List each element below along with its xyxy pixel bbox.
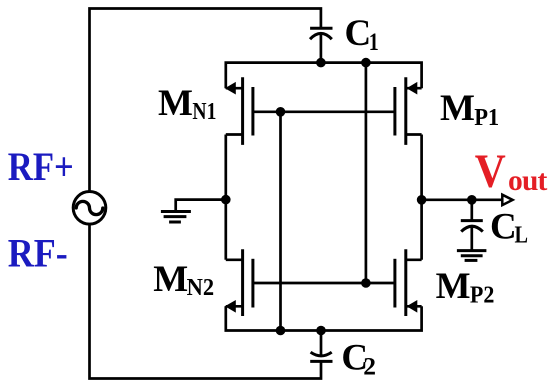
node: cross-couple right to bottom gate line <box>361 278 371 288</box>
svg-text:RF+: RF+ <box>8 144 74 189</box>
wire: cross-couple right vertical <box>365 63 368 283</box>
node: Vout tap on right stack <box>417 195 427 205</box>
capacitor CL curved plate <box>461 226 483 231</box>
capacitor C1 flat plate <box>310 27 332 30</box>
node: cross-couple left to bottom rail <box>276 326 286 336</box>
wire: bottom rail to C2 curved plate <box>320 331 323 356</box>
wire: C2 flat plate to source bottom (bottom horizontal + left vertical) <box>90 224 322 378</box>
svg-text:RF-: RF- <box>8 230 68 275</box>
svg-text:N2: N2 <box>187 274 215 301</box>
transistor MP2 <box>395 249 422 316</box>
svg-text:out: out <box>508 165 548 197</box>
capacitor C1 curved plate <box>310 33 332 39</box>
wire: C1 curved plate to top rail <box>320 34 323 63</box>
wire: top gate line <box>253 110 395 113</box>
wire: CL to ground <box>470 227 473 250</box>
wire: right stack vertical MP1 source to MP2 drain <box>420 135 423 260</box>
svg-text:C: C <box>345 13 372 54</box>
label Vout <box>475 145 548 198</box>
svg-text:P1: P1 <box>474 104 499 131</box>
label MN2 <box>153 259 214 301</box>
node: cross-couple left to top gate line <box>276 107 286 117</box>
svg-text:2: 2 <box>363 351 376 380</box>
wire: top rail with corner drops <box>226 63 422 89</box>
wire: Vout line to CL <box>470 200 473 221</box>
label RF+ <box>8 144 74 189</box>
capacitor C2 flat plate <box>310 360 332 363</box>
transistor MP1 <box>395 77 422 145</box>
node: C1 to top rail <box>316 58 326 68</box>
svg-text:1: 1 <box>369 27 379 56</box>
arrow: Vout open arrowhead <box>502 195 512 205</box>
capacitor C2 curved plate <box>311 352 332 356</box>
wire: source top to C1 top plate (left vertical + top horizontal) <box>90 9 321 192</box>
transistor MN1 <box>225 77 253 145</box>
svg-text:V: V <box>475 145 506 198</box>
svg-text:M: M <box>440 88 475 129</box>
svg-text:L: L <box>515 223 529 249</box>
ground left <box>161 212 191 223</box>
label MP1 <box>440 88 499 131</box>
node: ground tap on left stack <box>221 195 231 205</box>
node: C2 to bottom rail <box>316 326 326 336</box>
node: cross-couple right to top rail <box>361 58 371 68</box>
svg-text:M: M <box>158 83 193 124</box>
label MP2 <box>436 266 495 308</box>
transistor MN2 <box>225 249 253 316</box>
ground under CL <box>457 251 487 261</box>
svg-text:M: M <box>153 259 188 300</box>
svg-text:N1: N1 <box>192 98 216 125</box>
wire: Vout line <box>422 198 502 201</box>
AC source VRF circle <box>73 192 106 225</box>
wire: cross-couple left vertical <box>279 112 282 331</box>
node: CL tap on Vout line <box>467 195 477 205</box>
label C2 <box>341 338 376 381</box>
capacitor CL flat plate <box>461 219 483 222</box>
AC source sine wave <box>76 201 103 214</box>
wire: ground stub left <box>176 200 226 212</box>
svg-text:M: M <box>436 266 471 307</box>
label MN1 <box>158 83 216 125</box>
wire: left stack vertical MN1 source to MN2 drain <box>224 135 227 260</box>
svg-text:P2: P2 <box>470 281 495 308</box>
label C1 <box>345 13 379 56</box>
svg-text:C: C <box>490 207 517 248</box>
label RF- <box>8 230 68 275</box>
wire: bottom gate line <box>253 282 395 285</box>
wire: bottom rail with corner rises <box>226 306 422 330</box>
label CL <box>490 207 528 249</box>
